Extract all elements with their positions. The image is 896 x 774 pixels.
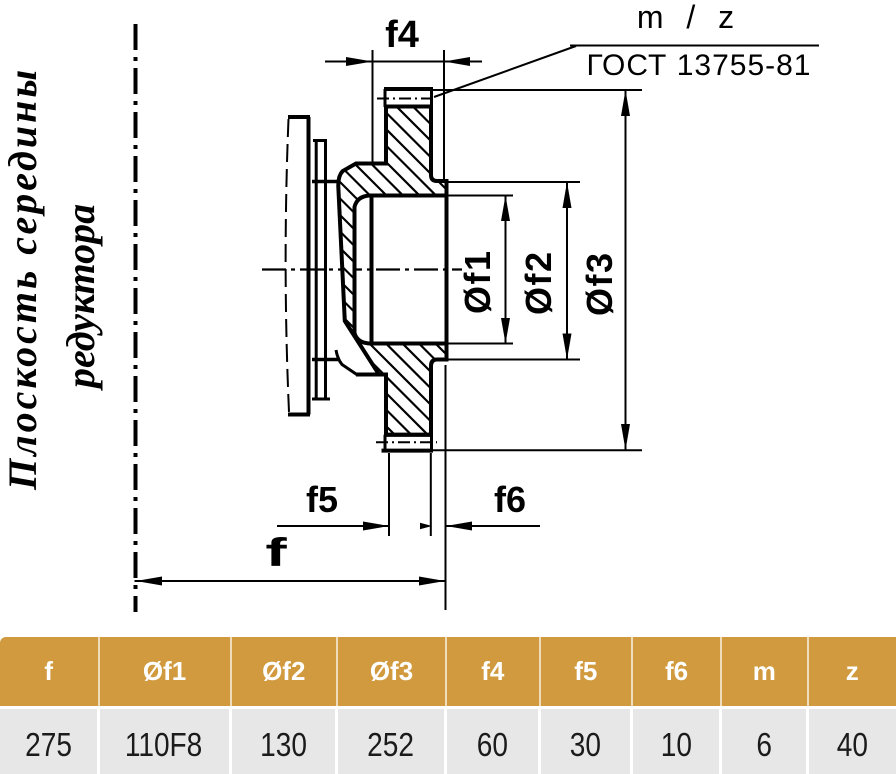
svg-text:Øf1: Øf1 — [457, 249, 498, 314]
svg-text:редуктора: редуктора — [58, 204, 103, 391]
svg-text:Øf3: Øf3 — [579, 251, 620, 316]
svg-text:ГОСТ 13755-81: ГОСТ 13755-81 — [586, 49, 811, 82]
svg-text:Плоскость середины: Плоскость середины — [0, 67, 45, 491]
svg-text:f6: f6 — [494, 479, 526, 520]
svg-text:Øf2: Øf2 — [518, 250, 559, 315]
svg-text:f5: f5 — [306, 479, 338, 520]
svg-text:f: f — [265, 531, 287, 575]
svg-text:f4: f4 — [385, 14, 419, 56]
svg-text:m / z: m / z — [637, 0, 741, 35]
